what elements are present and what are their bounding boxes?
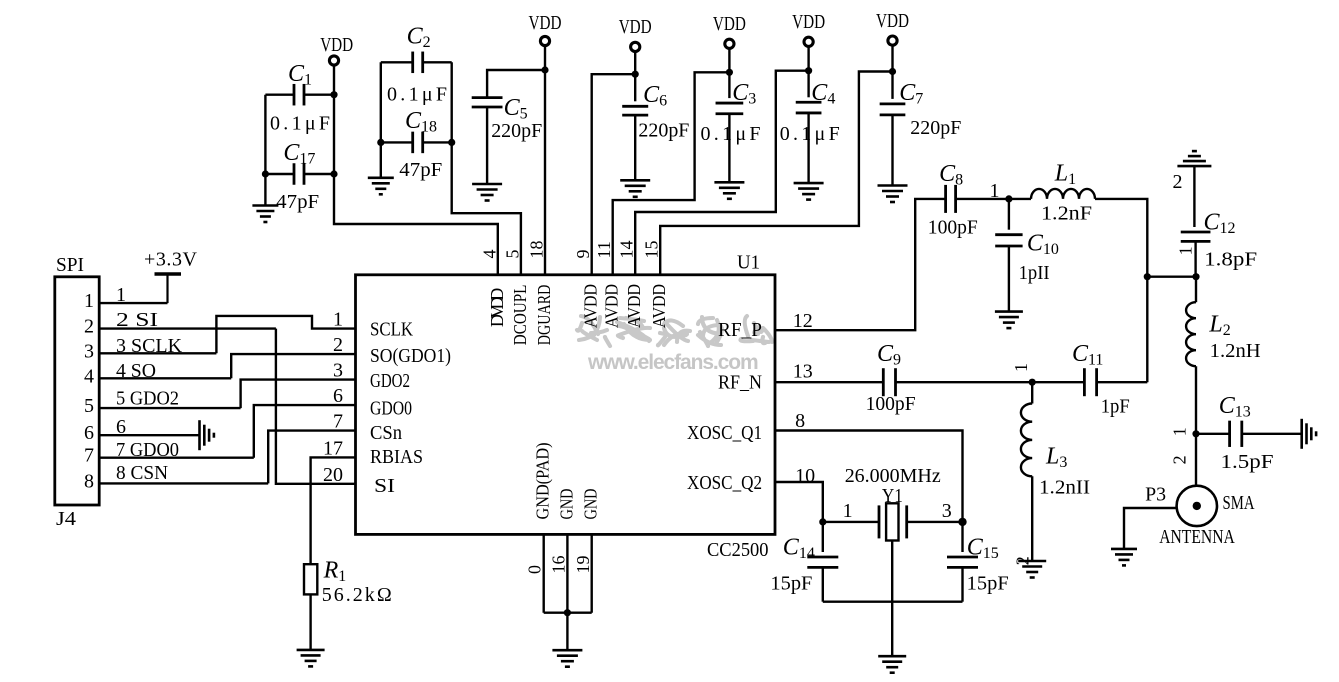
label Y1 refdes [882, 485, 903, 507]
svg-text:SI: SI [374, 475, 395, 497]
designator label C9 [877, 341, 901, 369]
label net CSN [116, 462, 168, 484]
ground J4 pin6 (sideways) [200, 420, 214, 450]
svg-text:1.2nII: 1.2nII [1039, 477, 1090, 499]
label U1 pin 4 number (rotated) [479, 250, 499, 259]
capacitor C10 (plates) [995, 235, 1022, 246]
label U1 SI pin name [374, 475, 395, 497]
power symbol VDD (C6 rail) [619, 16, 652, 52]
wire VDD to C7 [891, 46, 893, 99]
label U1 pin 3 number [333, 360, 343, 382]
designator label L2 [1208, 312, 1230, 340]
junction C18 left [377, 139, 384, 146]
label U1 DCOUPL pin name (rotated) [510, 285, 530, 346]
junction GND bus [564, 609, 571, 616]
ground C6 [620, 180, 650, 197]
svg-text:10: 10 [795, 465, 815, 487]
label C12 pin 1 (rotated) [1175, 246, 1195, 255]
svg-text:15pF: 15pF [967, 573, 1009, 595]
svg-text:SMA: SMA [1223, 492, 1255, 514]
label U1 pin 20 number [323, 464, 343, 486]
designator label C6 [643, 82, 667, 110]
label L3 pin 1 (rotated) [1011, 363, 1031, 372]
label U1 pin 19 number (rotated) [573, 556, 593, 574]
label U1 pin 12 number [793, 310, 813, 332]
label C5 value [491, 120, 542, 142]
designator label C14 [783, 535, 815, 563]
capacitor C18 (plates) [413, 132, 423, 154]
svg-text:8: 8 [84, 470, 94, 492]
label U1 pin 8 number [795, 410, 805, 432]
capacitor C15 (plates) [947, 557, 978, 567]
svg-text:8: 8 [795, 410, 805, 432]
svg-text:1pII: 1pII [1019, 262, 1050, 284]
svg-text:8 CSN: 8 CSN [116, 462, 168, 484]
wire L1 to antenna rail [1095, 199, 1147, 382]
wire U1 pin19 GND stub [591, 534, 593, 612]
wire J4 pin7 (GDO0) [99, 457, 254, 459]
label C10 value [1019, 262, 1050, 284]
wire C8 to L1 [956, 198, 1031, 200]
designator label C13 [1219, 393, 1251, 421]
svg-text:VDD: VDD [876, 10, 909, 32]
wire U1 pin0 GND(PAD) stub [543, 534, 545, 612]
label U1 GDO2 pin name [370, 370, 410, 392]
wire C1 right lead [304, 93, 334, 95]
wire GND bus bar [544, 612, 592, 614]
label C11 value [1101, 396, 1130, 418]
wire C18 left lead [381, 141, 413, 143]
wire C3 bottom lead [728, 114, 730, 183]
label U1 pin 14 number (rotated) [617, 241, 637, 259]
capacitor C17 (plates) [294, 163, 304, 185]
power symbol VDD (C5 rail) [529, 12, 562, 46]
wire C2/C18 to U1 pin5 DCOUPL [452, 62, 521, 274]
label J4 pin 1 number [84, 290, 94, 312]
svg-text:GND(PAD): GND(PAD) [533, 442, 554, 519]
svg-text:XOSC_Q2: XOSC_Q2 [687, 472, 762, 494]
label U1 GND(PAD) pin name (rotated) [533, 442, 554, 519]
svg-text:7: 7 [84, 445, 94, 467]
wire C6 bottom lead [634, 115, 636, 180]
svg-text:1pF: 1pF [1101, 396, 1130, 418]
designator label C10 [1027, 231, 1059, 259]
svg-text:1.2nF: 1.2nF [1041, 203, 1092, 225]
svg-text:2 SI: 2 SI [116, 309, 158, 331]
svg-text:VDD: VDD [619, 16, 652, 38]
svg-text:U1: U1 [737, 252, 760, 274]
capacitor C4 (plates) [796, 102, 822, 113]
svg-text:P3: P3 [1145, 483, 1166, 505]
junction C17 right [330, 170, 337, 177]
junction node L3 top [1029, 379, 1036, 386]
label L3 value [1039, 477, 1090, 499]
label net 1 (+3.3V) [116, 284, 126, 306]
svg-text:1.2nH: 1.2nH [1210, 340, 1261, 362]
svg-text:6: 6 [116, 416, 126, 438]
label U1 part CC2500 [707, 539, 769, 561]
svg-text:12: 12 [793, 310, 813, 332]
wire node to L2 [1195, 277, 1197, 303]
ground C10 [995, 312, 1023, 329]
watermark url [587, 351, 758, 374]
wire U1 pin13 RF_N to C9 [775, 381, 883, 383]
ground C2/C18 [368, 178, 394, 195]
capacitor C9 (plates) [883, 368, 895, 396]
label U1 pin 5 number (rotated) [502, 250, 522, 259]
svg-text:+3.3V: +3.3V [144, 249, 198, 271]
wire C2 left lead [381, 61, 413, 63]
designator label C4 [811, 80, 835, 108]
wire CSN to U1 pin7 [268, 431, 355, 484]
junction C4 tap [805, 67, 812, 74]
junction rail / C12 branch [1144, 273, 1151, 280]
junction Y1 pin1 node [819, 518, 826, 525]
power symbol +3.3V [144, 249, 198, 304]
crystal Y1 [879, 503, 907, 540]
svg-text:XOSC_Q1: XOSC_Q1 [687, 422, 762, 444]
svg-text:0.1μF: 0.1μF [387, 84, 447, 106]
inductor L1 (coil) [1031, 189, 1095, 199]
designator label C12 [1204, 210, 1236, 238]
designator label C1 [288, 61, 312, 89]
label U1 AVDD pin11 name (rotated) [602, 284, 622, 328]
svg-text:GND: GND [581, 489, 601, 520]
ground Y1 case [878, 656, 906, 673]
ground C4 [794, 183, 824, 200]
connector J4 (SPI header) [55, 277, 99, 505]
designator label C7 [899, 80, 923, 108]
wire VDD to U1 pin9 AVDD [592, 74, 636, 275]
wire C11 to rail [1097, 381, 1148, 383]
svg-text:14: 14 [617, 241, 637, 259]
svg-text:AVDD: AVDD [581, 284, 601, 328]
wire C1 left lead [265, 93, 294, 95]
svg-text:20: 20 [323, 464, 343, 486]
wire node to C14 [822, 522, 824, 552]
svg-text:18: 18 [527, 241, 547, 259]
svg-text:AVDD: AVDD [649, 284, 669, 328]
wire VDD to C6 [634, 52, 636, 102]
svg-text:J4: J4 [56, 508, 76, 530]
capacitor C1 (plates) [294, 84, 304, 106]
wire VDD to U1 pin14 AVDD [635, 71, 808, 275]
capacitor C14 (plates) [807, 557, 838, 567]
wire crystal gnd bus [823, 601, 963, 603]
capacitor C6 (plates) [622, 106, 648, 115]
label ANTENNA label [1159, 526, 1235, 548]
label U1 XOSC_Q2 pin name [687, 472, 762, 494]
wire J4 pin4 (SO) [99, 377, 231, 379]
power symbol VDD (C7 rail) [876, 10, 909, 45]
svg-text:4: 4 [479, 250, 499, 259]
wire L2 to antenna node [1195, 366, 1197, 434]
label U1 XOSC_Q1 pin name [687, 422, 762, 444]
svg-text:1: 1 [116, 284, 126, 306]
junction node 1 (C8/L1/C10) [1005, 195, 1012, 202]
label SMA pin 2 (rotated) [1170, 455, 1190, 464]
watermark (site logo squiggles) [576, 315, 773, 347]
label U1 pin 16 number (rotated) [549, 556, 569, 574]
svg-text:3: 3 [942, 500, 952, 522]
label C15 value [967, 573, 1009, 595]
wire C10 to ground [1008, 246, 1010, 312]
wire SO to U1 pin2 [231, 354, 355, 378]
label U1 pin 7 number [333, 411, 343, 433]
wire C14 to gnd bus [822, 567, 824, 601]
wire C17 left lead [265, 173, 294, 175]
svg-text:GDO0: GDO0 [370, 398, 412, 420]
label U1 pin 6 number [333, 385, 343, 407]
op IC U1 CC2500 body [356, 275, 776, 535]
svg-text:220pF: 220pF [910, 117, 961, 139]
wire VDD to U1 pin18 DGUARD [544, 46, 546, 275]
capacitor C11 (plates) [1084, 368, 1096, 396]
svg-text:DCOUPL: DCOUPL [510, 285, 530, 346]
label U1 GND pin19 name (rotated) [581, 489, 601, 520]
label C13 pin 1 (rotated) [1170, 427, 1190, 436]
label node 1 [990, 180, 1000, 202]
ground C5 [472, 184, 502, 201]
label U1 AVDD pin14 name (rotated) [624, 284, 644, 328]
svg-text:RF_P: RF_P [718, 319, 762, 341]
label U1 SO(GDO1) pin name [370, 345, 451, 367]
svg-text:9: 9 [573, 250, 593, 259]
label net GDO0 [116, 439, 179, 461]
svg-text:VDD: VDD [792, 11, 825, 33]
label U1 RF_N pin name [718, 371, 762, 393]
label R1 value 56.2kOhm [322, 584, 392, 606]
designator label R1 [323, 558, 347, 586]
label U1 RF_P pin name [718, 319, 762, 341]
label C13 value [1221, 451, 1274, 473]
label J4 pin 3 number [84, 340, 94, 362]
svg-text:16: 16 [549, 556, 569, 574]
label U1 AVDD pin9 name (rotated) [581, 284, 601, 328]
label U1 DGUARD pin name (rotated) [534, 285, 554, 346]
wire U1 pin17 RBIAS to R1 [311, 457, 356, 564]
svg-text:47pF: 47pF [276, 191, 319, 213]
ground SMA [1111, 549, 1137, 566]
ground C7 [878, 186, 908, 203]
label C18 value [399, 159, 442, 181]
wire C1/C17 left rail [264, 95, 266, 206]
capacitor C12 (plates) [1181, 232, 1211, 241]
wire C13 to ground [1242, 433, 1302, 435]
label J4 pin 7 number [84, 445, 94, 467]
label net SCLK [116, 335, 183, 357]
label U1 pin 17 number [323, 437, 343, 459]
svg-text:3: 3 [84, 340, 94, 362]
power symbol VDD (C3 rail) [713, 13, 746, 48]
svg-text:VDD: VDD [529, 12, 562, 34]
resistor R1 [304, 564, 317, 594]
label C2 value [387, 84, 447, 106]
label U1 pin 9 number (rotated) [573, 250, 593, 259]
designator label C11 [1072, 341, 1103, 369]
label SPI title [56, 254, 84, 276]
label C14 value [770, 573, 812, 595]
wire C7 bottom lead [891, 115, 893, 186]
connector P3 SMA antenna [1177, 486, 1217, 526]
label U1 pin 15 number (rotated) [642, 241, 662, 259]
junction C1 right [330, 91, 337, 98]
wire node to SMA [1195, 434, 1197, 486]
wire U1 pin16 GND stub [566, 534, 568, 612]
svg-text:15pF: 15pF [770, 573, 812, 595]
label J4 pin 6 number [84, 422, 94, 444]
wire Y1 pin1 lead [823, 521, 879, 523]
label net 6 [116, 416, 126, 438]
svg-text:6: 6 [333, 385, 343, 407]
svg-text:19: 19 [573, 556, 593, 574]
wire SCLK to U1 pin1 [216, 316, 355, 353]
power symbol VDD (C1 rail) [320, 34, 353, 65]
label Y1 frequency [845, 465, 941, 487]
wire U1 pin8 XOSC_Q1 to Y1 [775, 431, 963, 522]
wire Y1 pin3 lead [907, 521, 963, 523]
inductor L2 (coil) [1186, 302, 1196, 366]
svg-text:SCLK: SCLK [370, 319, 413, 341]
label U1 GDO0 pin name [370, 398, 412, 420]
power symbol VDD (C4 rail) [792, 11, 825, 46]
label SMA label [1223, 492, 1255, 514]
junction C7 tap [889, 68, 896, 75]
label U1 pin 1 number [333, 309, 343, 331]
label U1 refdes [737, 252, 760, 274]
wire VDD to U1 pin4 DVDD [334, 65, 498, 274]
wire J4 pin6 to ground [99, 434, 199, 436]
ground U1 GND pins [552, 650, 582, 667]
wire J4 pin8 (CSN) [99, 482, 268, 484]
svg-text:13: 13 [793, 361, 813, 383]
svg-text:5: 5 [502, 250, 522, 259]
ground C3 [714, 182, 744, 199]
wire J4 pin3 (SCLK) [99, 352, 216, 354]
label U1 CSn pin name [370, 422, 402, 444]
svg-text:AVDD: AVDD [624, 284, 644, 328]
svg-text:SPI: SPI [56, 254, 84, 276]
label J4 pin 2 number [84, 316, 94, 338]
capacitor C7 (plates) [880, 104, 906, 115]
designator label C18 [405, 108, 437, 136]
label net GDO2 [116, 388, 179, 410]
svg-text:GND: GND [556, 489, 576, 520]
ground L3 [1018, 561, 1046, 578]
wire GDO2 to U1 pin3 [241, 380, 356, 409]
svg-text:220pF: 220pF [491, 120, 542, 142]
svg-text:CSn: CSn [370, 422, 402, 444]
label U1 AVDD pin15 name (rotated) [649, 284, 669, 328]
label C4 value [780, 123, 840, 145]
wire J4 pin2 (SI) [99, 327, 276, 329]
ground R1 [297, 650, 325, 667]
label U1 GND pin16 name (rotated) [556, 489, 576, 520]
label C12 value [1204, 249, 1257, 271]
wire U1 pin10 XOSC_Q2 to Y1 [775, 482, 823, 522]
wire GDO0 to U1 pin6 [254, 405, 356, 458]
svg-text:4: 4 [84, 365, 94, 387]
wire VDD to U1 pin11 AVDD [613, 72, 730, 274]
wire R1 to ground [309, 594, 311, 650]
svg-text:7: 7 [333, 411, 343, 433]
designator label C15 [967, 535, 999, 563]
capacitor C8 (plates) [946, 185, 956, 213]
wire rail to L2 node [1147, 276, 1196, 278]
capacitor C2 (plates) [413, 52, 423, 74]
svg-text:3: 3 [333, 360, 343, 382]
svg-text:0.1μF: 0.1μF [270, 113, 330, 135]
wire VDD to C3 [728, 49, 730, 98]
label C9 value [866, 393, 916, 415]
wire C4 bottom lead [807, 113, 809, 183]
svg-text:ANTENNA: ANTENNA [1159, 526, 1235, 548]
wire node to C13 [1196, 433, 1230, 435]
svg-text:1: 1 [84, 290, 94, 312]
designator label L3 [1045, 444, 1067, 472]
svg-text:1: 1 [333, 309, 343, 331]
wire node to L3 [1031, 382, 1033, 403]
svg-text:100pF: 100pF [928, 217, 978, 239]
label L3 pin 2 (rotated) [1013, 556, 1033, 565]
svg-text:100pF: 100pF [866, 393, 916, 415]
capacitor C13 (plates) [1230, 421, 1242, 447]
junction antenna node [1192, 430, 1199, 437]
wire C15 to gnd bus [961, 567, 963, 601]
svg-text:GDO2: GDO2 [370, 370, 410, 392]
svg-text:2: 2 [1173, 171, 1183, 193]
svg-text:DVDD: DVDD [487, 288, 507, 327]
svg-text:17: 17 [323, 437, 343, 459]
junction C5 tap [541, 66, 548, 73]
ground C1/C17 [252, 206, 278, 223]
svg-text:2: 2 [1170, 455, 1190, 464]
label C8 value [928, 217, 978, 239]
label J4 pin 5 number [84, 395, 94, 417]
svg-text:11: 11 [594, 241, 614, 258]
wire C17 right lead [304, 173, 334, 175]
label C6 value [638, 120, 689, 142]
svg-text:1: 1 [1011, 363, 1031, 372]
svg-text:5 GDO2: 5 GDO2 [116, 388, 179, 410]
svg-text:220pF: 220pF [638, 120, 689, 142]
wire VDD to U1 pin15 AVDD [660, 72, 892, 275]
wire SMA shield to ground [1124, 508, 1177, 549]
svg-text:3 SCLK: 3 SCLK [116, 335, 183, 357]
label C1 value [270, 113, 330, 135]
label C17 value [276, 191, 319, 213]
label U1 pin 11 number (rotated) [594, 241, 614, 258]
wire C5 top lead [487, 70, 545, 97]
wire C5 bottom lead [486, 107, 488, 184]
label C12 pin 2 [1173, 171, 1183, 193]
svg-text:1: 1 [1170, 427, 1190, 436]
svg-text:VDD: VDD [320, 34, 353, 56]
svg-text:2: 2 [333, 334, 343, 356]
label net SI [116, 309, 158, 331]
designator label C2 [407, 24, 431, 52]
label U1 pin 0 number (rotated) [525, 565, 545, 574]
wire L3 to ground [1031, 476, 1033, 561]
svg-text:7 GDO0: 7 GDO0 [116, 439, 179, 461]
label Y1 pin 3 number [942, 500, 952, 522]
wire C2/C18 left rail [380, 62, 382, 178]
svg-text:5: 5 [84, 395, 94, 417]
svg-text:1: 1 [990, 180, 1000, 202]
label P3 refdes [1145, 483, 1166, 505]
svg-text:1: 1 [843, 500, 853, 522]
svg-text:RBIAS: RBIAS [370, 446, 423, 468]
